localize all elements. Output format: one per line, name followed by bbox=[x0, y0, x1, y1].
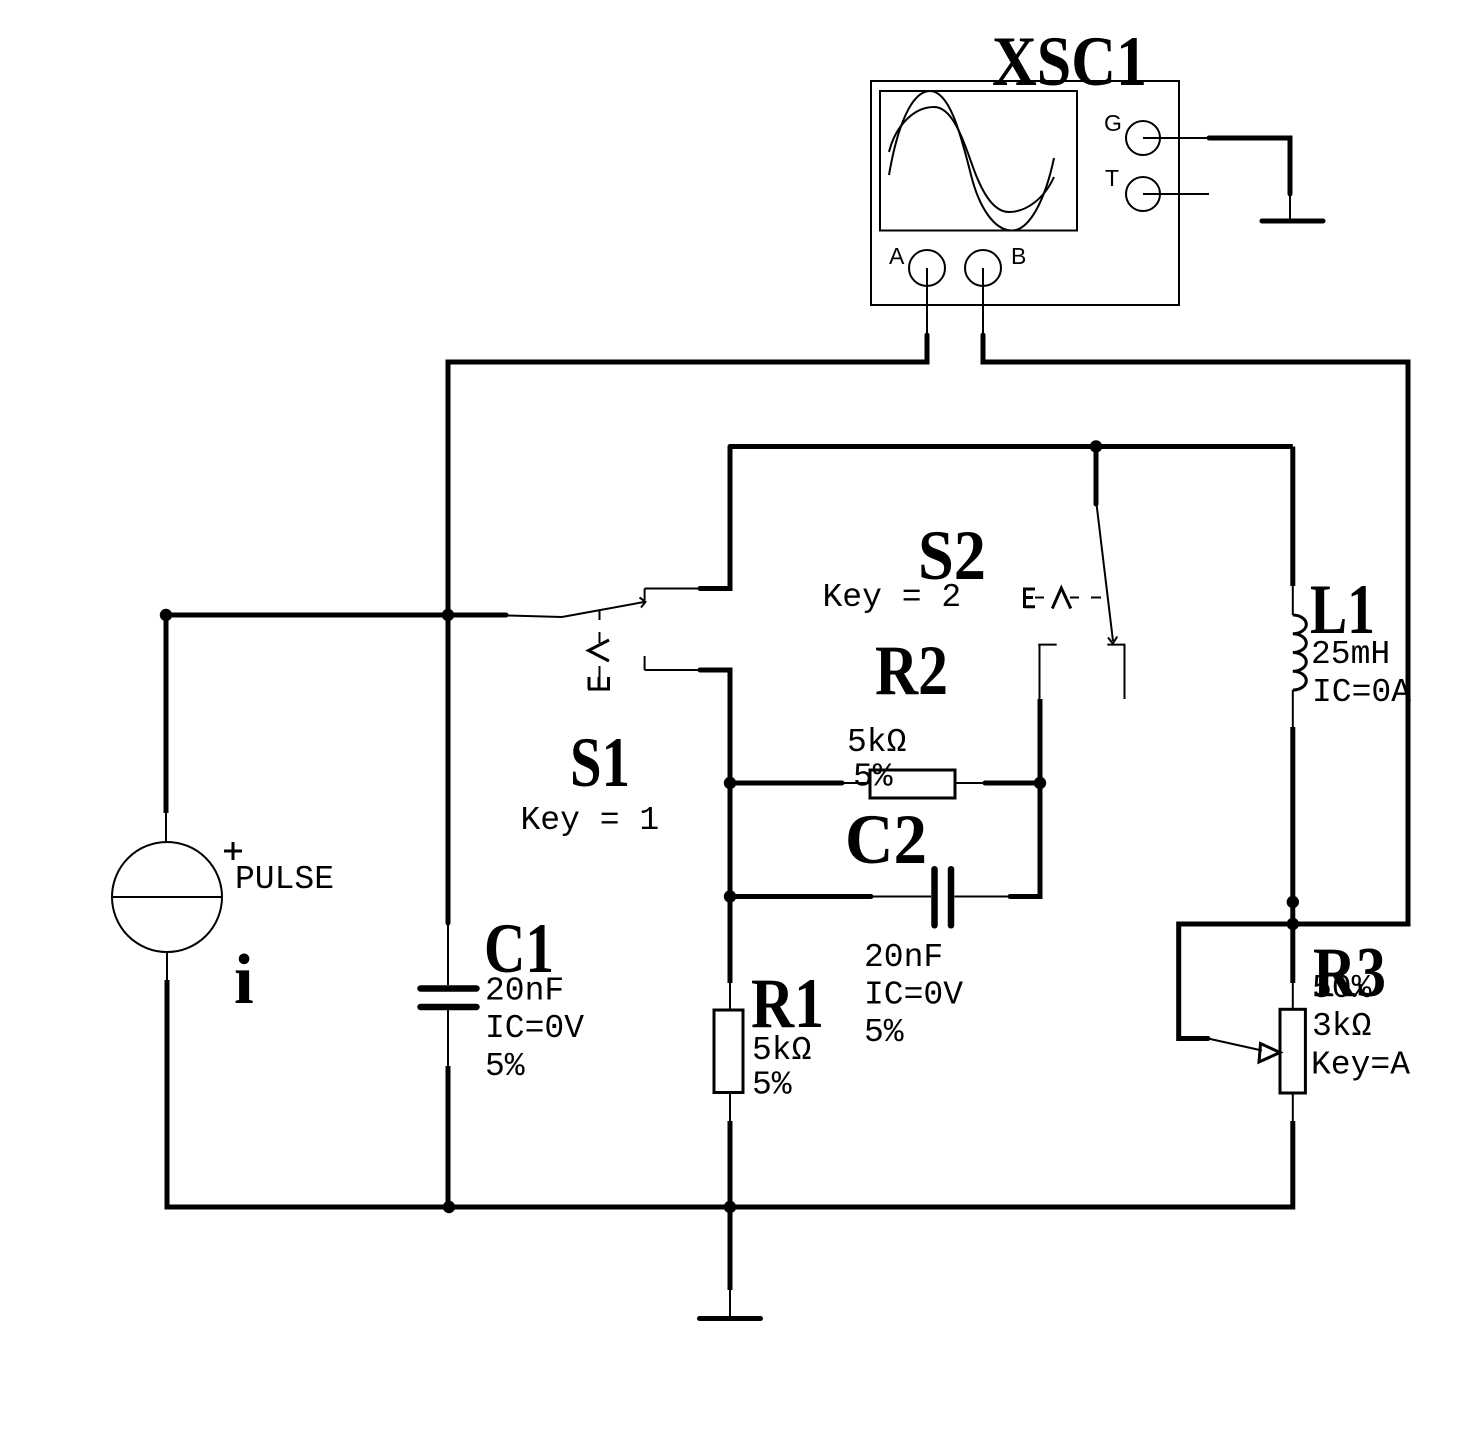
junction dot L1 bottom bbox=[1287, 896, 1299, 908]
source top pin bbox=[165, 813, 167, 843]
junction dot bottom R1 bbox=[724, 1201, 736, 1213]
svg-text:3kΩ: 3kΩ bbox=[1312, 1008, 1371, 1045]
source bottom pin bbox=[166, 952, 168, 980]
svg-text:B: B bbox=[1011, 243, 1026, 269]
svg-text:5kΩ: 5kΩ bbox=[752, 1032, 811, 1069]
S2 blade bbox=[1097, 504, 1114, 641]
S2 right contact pin bbox=[1124, 645, 1126, 699]
junction dot C2 left bbox=[724, 890, 736, 902]
L1 top wire bbox=[1290, 447, 1295, 587]
R1 bottom pin bbox=[729, 1093, 731, 1122]
oscilloscope body box bbox=[871, 81, 1179, 305]
svg-text:S1: S1 bbox=[570, 724, 630, 802]
S1 key dashed line bbox=[599, 611, 601, 678]
C2 left wire bbox=[730, 894, 871, 899]
R3 top pin bbox=[1292, 983, 1294, 1009]
wire scope A to top rail bbox=[448, 335, 927, 923]
R3 top wire bbox=[1290, 924, 1295, 983]
R3 body bbox=[1280, 1009, 1305, 1093]
ground stem thin bbox=[729, 1290, 731, 1316]
wire G to ground bbox=[1209, 138, 1290, 194]
C2 left pin bbox=[871, 896, 931, 898]
R3 wiper diagonal bbox=[1208, 1039, 1262, 1051]
scope trace outer sine bbox=[889, 91, 1054, 231]
R2 left pin bbox=[842, 782, 870, 784]
inductor L1 bbox=[1287, 447, 1412, 931]
svg-text:C2: C2 bbox=[845, 801, 927, 879]
svg-text:5%: 5% bbox=[485, 1048, 525, 1085]
S1 blade arrowhead bbox=[640, 598, 646, 608]
junction dot left rail bbox=[442, 609, 454, 621]
S1 blade bbox=[562, 602, 644, 617]
S2 blade arrowhead bbox=[1108, 637, 1117, 644]
C1 top pin bbox=[447, 923, 449, 985]
source diameter line bbox=[112, 896, 222, 898]
svg-text:5%: 5% bbox=[752, 1067, 792, 1104]
S2 left contact pin bbox=[1039, 645, 1041, 699]
svg-text:IC=0A: IC=0A bbox=[1312, 674, 1411, 711]
R2 left wire bbox=[730, 781, 842, 786]
svg-text:T: T bbox=[1105, 165, 1119, 191]
svg-text:5kΩ: 5kΩ bbox=[847, 724, 906, 761]
svg-text:A: A bbox=[889, 243, 905, 269]
svg-text:20nF: 20nF bbox=[864, 939, 943, 976]
S1 common pin bbox=[506, 616, 562, 618]
pin line G bbox=[1143, 137, 1207, 139]
junction dot R2 left bbox=[724, 777, 736, 789]
terminal T circle bbox=[1126, 177, 1160, 211]
C1 wire to bottom rail bbox=[446, 1066, 451, 1207]
L1 top pin bbox=[1292, 586, 1294, 615]
S1 bottom contact bar bbox=[644, 656, 646, 670]
S1 common wire bbox=[448, 613, 506, 618]
svg-text:PULSE: PULSE bbox=[235, 861, 334, 898]
svg-text:IC=0V: IC=0V bbox=[485, 1010, 584, 1047]
C2 right wire up bbox=[1010, 783, 1040, 897]
terminal A circle bbox=[909, 250, 945, 286]
svg-text:i: i bbox=[234, 941, 254, 1019]
S2 key cap symbol bbox=[1025, 588, 1036, 609]
wire scope B right rail bbox=[983, 335, 1408, 1039]
plus sign bbox=[224, 842, 242, 860]
terminal G circle bbox=[1126, 121, 1160, 155]
svg-text:Key = 2: Key = 2 bbox=[823, 579, 962, 616]
S1 key arrow bbox=[589, 640, 610, 661]
pin line B bbox=[982, 268, 984, 336]
svg-text:Key = 1: Key = 1 bbox=[521, 802, 660, 839]
junction dot R2 right bbox=[1034, 777, 1046, 789]
svg-text:XSC1: XSC1 bbox=[992, 23, 1147, 101]
svg-text:R2: R2 bbox=[875, 632, 948, 710]
ground stem thick bbox=[728, 1207, 733, 1290]
S1 top contact bar bbox=[644, 589, 646, 601]
ground GND1 bar bbox=[1262, 219, 1323, 224]
capacitor C2 bbox=[724, 783, 1040, 1051]
S2 left contact bar bbox=[1038, 644, 1057, 646]
C2 right pin bbox=[955, 896, 1011, 898]
R2 body bbox=[870, 770, 955, 798]
S1 bottom contact pin bbox=[645, 669, 701, 671]
junction dot S2 top bbox=[1090, 440, 1102, 452]
source circle bbox=[112, 842, 222, 952]
R1 top wire (between junctions) bbox=[728, 783, 733, 983]
resistor R2 bbox=[724, 632, 1046, 798]
R2 right pin bbox=[955, 782, 986, 784]
svg-text:20nF: 20nF bbox=[485, 973, 564, 1010]
L1 bottom pin bbox=[1292, 690, 1294, 727]
ground bar bbox=[700, 1316, 761, 1321]
svg-text:G: G bbox=[1104, 110, 1122, 136]
wire top to source bbox=[166, 615, 448, 813]
junction dot bottom C1 bbox=[443, 1201, 455, 1213]
potentiometer R3 bbox=[1208, 924, 1410, 1210]
C1 bottom pin bbox=[447, 1010, 449, 1066]
svg-text:25mH: 25mH bbox=[1311, 636, 1390, 673]
L1 coil bbox=[1293, 615, 1307, 690]
C2 left plate bbox=[931, 869, 938, 925]
R1 bottom wire bbox=[728, 1121, 733, 1207]
S1 wire bottom contact down bbox=[700, 670, 730, 783]
inner top rail bbox=[730, 444, 1293, 449]
L1 bottom wire bbox=[1290, 727, 1295, 924]
C2 right plate bbox=[948, 869, 955, 925]
current source i bbox=[112, 609, 449, 1207]
S1 wire top contact up bbox=[700, 447, 730, 589]
oscilloscope XSC1 bbox=[871, 23, 1209, 336]
oscilloscope screen bbox=[880, 91, 1077, 231]
ground GND2 (bottom) bbox=[700, 1207, 761, 1319]
ground stem (top right) bbox=[1289, 194, 1291, 219]
svg-text:Key=A: Key=A bbox=[1311, 1047, 1410, 1084]
C1 bottom plate bbox=[421, 1004, 477, 1011]
C1 top plate bbox=[421, 985, 477, 992]
junction dot rail cross bbox=[1287, 918, 1299, 930]
R1 body bbox=[714, 1010, 743, 1093]
S1 key cap symbol bbox=[588, 677, 610, 689]
terminal B circle bbox=[965, 250, 1001, 286]
svg-text:5%: 5% bbox=[864, 1014, 904, 1051]
R2 right wire bbox=[985, 781, 1040, 786]
capacitor C1 bbox=[421, 609, 585, 1207]
pin line A bbox=[926, 268, 928, 336]
S1 top contact pin bbox=[645, 588, 701, 590]
R3 bottom pin bbox=[1292, 1093, 1294, 1121]
scope trace inner sine bbox=[889, 107, 1054, 212]
svg-text:5%: 5% bbox=[853, 759, 893, 796]
S2 common wire bbox=[1094, 447, 1099, 505]
S2 right contact bar bbox=[1107, 644, 1125, 646]
S2 key dashes bbox=[1035, 597, 1101, 599]
S2 key arrow bbox=[1052, 588, 1071, 609]
pin line T bbox=[1143, 193, 1209, 195]
R1 top pin bbox=[729, 983, 731, 1010]
switch S2 bbox=[823, 447, 1126, 784]
R3 bottom wire bbox=[1290, 1121, 1295, 1210]
svg-text:50%: 50% bbox=[1312, 970, 1372, 1007]
S2 wire left contact down bbox=[1038, 699, 1043, 783]
R3 wiper arrow bbox=[1259, 1044, 1280, 1063]
switch S1 bbox=[448, 447, 730, 840]
bottom rail bbox=[449, 1205, 1293, 1210]
resistor R1 bbox=[714, 783, 824, 1207]
node corner dot top-left bbox=[160, 609, 172, 621]
wire source to bottom rail bbox=[167, 980, 449, 1207]
svg-text:IC=0V: IC=0V bbox=[864, 977, 963, 1014]
